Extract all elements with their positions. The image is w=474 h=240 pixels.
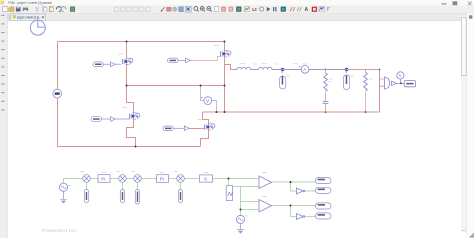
svg-text:Lt: Lt <box>252 7 257 12</box>
svg-text:Powersim Inc.: Powersim Inc. <box>42 228 78 233</box>
svg-text:project 1 inverter (3 ps..: project 1 inverter (3 ps.. <box>17 16 41 20</box>
svg-text:A: A <box>305 7 309 13</box>
svg-text:PI: PI <box>101 177 105 182</box>
svg-text:PI: PI <box>160 177 164 182</box>
svg-text:PSIM - project 1 inverter (3).: PSIM - project 1 inverter (3).psimsch <box>8 0 52 5</box>
svg-text:K: K <box>204 177 207 182</box>
svg-text:A: A <box>303 67 306 72</box>
svg-text:V: V <box>399 73 402 78</box>
